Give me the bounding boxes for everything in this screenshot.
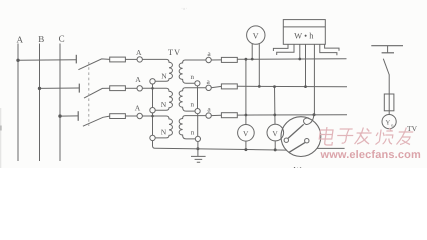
W·h voltage lead to bus b: [305, 44, 307, 86]
W·h voltage lead to bus a: [299, 44, 301, 59]
svg-text:Y: Y: [385, 119, 390, 126]
svg-text:n: n: [191, 129, 195, 137]
wire tap from bus B to switch pole 2: [40, 87, 80, 89]
terminal N2 of TV: [150, 108, 155, 113]
secondary bus a (horizontal): [237, 58, 346, 61]
terminal n3 of TV secondary: [195, 136, 200, 141]
fuse FU6 secondary phase c: [221, 113, 237, 118]
svg-text:A: A: [135, 104, 141, 113]
fuse FU5 secondary phase b: [221, 84, 237, 89]
svg-text:TV: TV: [168, 47, 181, 57]
svg-text:A: A: [17, 34, 24, 44]
watermark glyph zi: [336, 129, 354, 143]
terminal A3 of TV: [137, 113, 142, 118]
TV phase 2 primary winding: [142, 88, 172, 110]
voltmeter PV1 (top): [247, 26, 265, 44]
svg-text:N: N: [161, 72, 167, 81]
junction PV2 on return bus: [244, 148, 247, 151]
wire PV1 right lead to bus b: [258, 44, 260, 86]
junction PV3 lead on bus b: [273, 85, 276, 88]
svg-text:ˈ˟ˈ: ˈ˟ˈ: [181, 7, 187, 14]
fuse FU7 (with through wire): [384, 94, 394, 111]
secondary bus c (horizontal): [237, 114, 347, 116]
terminal A2 of TV: [137, 86, 142, 91]
phase bus B (vertical line): [39, 44, 41, 162]
ground symbol: [191, 156, 206, 162]
fuse FU1 primary: [110, 57, 126, 62]
synchroscope inner terminal left: [284, 138, 288, 142]
wire PV2 bottom lead to return bus: [245, 141, 247, 150]
svg-text:a: a: [207, 77, 211, 86]
svg-text:a: a: [207, 49, 211, 58]
junction PV1 lead on bus b: [258, 85, 261, 88]
feeder switch fixed contact stem: [387, 46, 389, 53]
secondary neutral wire n1-n2-n3 to ground: [197, 86, 199, 157]
voltage transformer TV2 body: [382, 115, 396, 129]
fuse FU4 secondary phase a: [221, 57, 237, 62]
wire PV3 bottom lead to return bus: [274, 141, 276, 150]
junction on bus C: [58, 114, 61, 117]
terminal n2 of TV secondary: [195, 109, 200, 114]
svg-text:W • h: W • h: [294, 31, 314, 41]
fuse FU3 primary: [110, 114, 126, 119]
synchroscope pointer lower: [289, 143, 305, 153]
junction W·h lead on bus b: [304, 85, 307, 88]
watt-hour meter W·h body: [283, 20, 325, 45]
disconnect switch QS pole 2 fixed contact: [78, 84, 80, 93]
W·h current coil hook terminal 3: [320, 44, 337, 55]
synchroscope / phase meter body: [281, 117, 321, 157]
voltmeter PV3 (bottom middle): [267, 124, 284, 141]
primary neutral bus wire (N1-N2-N3 to bottom bus): [153, 84, 156, 149]
wire from synchroscope right side: [317, 147, 345, 149]
phase bus C (vertical line): [59, 44, 61, 162]
W·h current coil hook terminal 2: [277, 44, 294, 55]
junction blob at bus c crossing: [273, 114, 276, 117]
svg-text:B: B: [38, 34, 44, 44]
disconnect switch QS pole 3 blade: [83, 116, 110, 126]
TV phase 2 secondary winding: [179, 88, 206, 111]
TV phase 1 secondary winding: [179, 60, 206, 83]
watermark glyph you: [396, 128, 413, 145]
phase bus A (vertical line): [17, 44, 19, 162]
junction blob at bus c crossing: [245, 114, 248, 117]
wire a1 to fuse FU4: [211, 59, 221, 61]
scan edge streak left: [0, 108, 1, 168]
svg-text:N: N: [161, 100, 167, 109]
junction on bus B: [38, 87, 41, 90]
fuse FU2 primary: [110, 86, 126, 91]
disconnect switch QS pole 1 fixed contact: [75, 55, 77, 64]
terminal N1 of TV: [150, 79, 155, 84]
watermark glyph fa: [355, 128, 373, 145]
svg-text:N: N: [161, 128, 167, 137]
wire V1 lead from bus a down to voltmeter PV2: [245, 59, 247, 124]
terminal n1 of TV secondary: [195, 81, 200, 86]
svg-text:n: n: [191, 73, 195, 81]
svg-text:A: A: [136, 48, 142, 57]
watermark glyph dian: [318, 127, 413, 145]
W·h current coil hook terminal 1: [273, 44, 288, 51]
feeder switch blade: [383, 59, 389, 75]
switch gang linkage (dashed): [88, 62, 90, 126]
terminal A1 of TV: [137, 57, 142, 62]
wire tap from bus A to switch pole 1: [18, 59, 76, 62]
svg-text:www.elecfans.com: www.elecfans.com: [320, 149, 421, 161]
wire fuse FU2 to terminal A2: [125, 87, 137, 89]
W·h current coil hook terminal 4: [325, 44, 339, 51]
W·h voltage lead to bus c: [313, 44, 315, 114]
TV phase 3 secondary winding: [179, 116, 206, 139]
wire through fuse FU7 to TV2: [388, 94, 390, 115]
wire blade to fuse FU7: [388, 75, 390, 94]
secondary bus b (horizontal): [237, 85, 347, 88]
junction PV2 lead on bus a: [245, 58, 248, 61]
junction N-bus over phase3 wire: [151, 115, 154, 118]
synchroscope lead curl from bus c: [303, 115, 313, 125]
voltmeter PV2 (bottom left): [238, 125, 255, 142]
bottom return bus wire: [155, 148, 287, 150]
terminal a2 of TV secondary: [206, 85, 211, 90]
scan blot left edge: [0, 126, 2, 131]
junction PV3 on return bus: [274, 148, 277, 151]
junction on bus A: [16, 59, 19, 62]
wire PV1 left lead to bus a: [251, 44, 253, 60]
feeder switch contact bar: [382, 52, 394, 54]
junction W·h lead on bus a: [298, 58, 301, 61]
terminal N3 of TV: [150, 135, 155, 140]
wire fuse FU1 to terminal A1: [125, 58, 137, 60]
watt-hour meter header line: [283, 26, 325, 28]
watermark glyph shao: [375, 128, 394, 145]
wire V2 lead from bus b down to voltmeter PV3: [274, 87, 277, 125]
busbar segment (right feeder): [371, 45, 403, 47]
synchroscope pointer upper: [288, 124, 304, 138]
junction W·h lead on bus c: [313, 113, 316, 116]
svg-text:W: W: [293, 165, 301, 169]
disconnect switch QS pole 2 blade: [84, 88, 110, 98]
wire a2 to fuse FU5: [211, 86, 221, 87]
svg-text:a: a: [207, 104, 211, 113]
svg-text:V: V: [272, 129, 278, 138]
junction neutral at bottom bus: [196, 147, 199, 150]
terminal a1 of TV secondary: [206, 57, 211, 62]
terminal a3 of TV secondary: [206, 113, 211, 118]
wire fuse FU3 to terminal A3: [125, 115, 137, 117]
wire tap from bus C to switch pole 3: [60, 115, 78, 117]
junction PV1 lead on bus a: [251, 58, 254, 61]
wire a3 to fuse FU6: [211, 114, 221, 116]
svg-text:V: V: [243, 129, 249, 138]
synchroscope inner terminal right: [305, 139, 309, 143]
svg-text:V: V: [253, 32, 259, 41]
junction N-bus over phase2 wire: [151, 87, 154, 90]
svg-text:n: n: [190, 101, 194, 109]
svg-text:C: C: [59, 33, 65, 43]
TV phase 1 primary winding: [142, 59, 172, 81]
disconnect switch QS pole 3 fixed contact: [77, 111, 79, 121]
svg-text:A: A: [135, 75, 141, 84]
TV phase 3 primary winding: [142, 116, 172, 138]
disconnect switch QS pole 1 blade: [78, 59, 109, 70]
